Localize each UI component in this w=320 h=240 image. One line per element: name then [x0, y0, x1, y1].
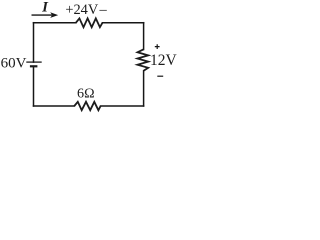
wire left lower — [33, 66, 35, 106]
svg-text:6Ω: 6Ω — [77, 85, 95, 101]
battery 60V plate long (+) — [26, 61, 41, 63]
svg-text:60V: 60V — [1, 56, 27, 72]
wire top-left segment — [34, 22, 76, 24]
wire bottom-left segment — [34, 105, 75, 107]
current arrow — [32, 14, 53, 16]
resistor 12V (right) — [138, 49, 149, 71]
battery 60V plate short (-) — [30, 65, 38, 67]
wire top-right segment — [103, 22, 144, 24]
wire bottom-right segment — [101, 105, 144, 107]
svg-text:12V: 12V — [150, 52, 178, 69]
label - (12V) — [157, 75, 163, 77]
label + (12V) — [155, 44, 160, 49]
wire left upper — [33, 23, 35, 62]
resistor 24V (top) — [76, 18, 103, 27]
svg-text:+24V –: +24V – — [65, 2, 107, 18]
svg-text:I: I — [41, 0, 49, 15]
resistor 6ohm (bottom) — [74, 102, 100, 110]
wire right upper — [143, 23, 145, 50]
wire right lower — [143, 71, 145, 106]
